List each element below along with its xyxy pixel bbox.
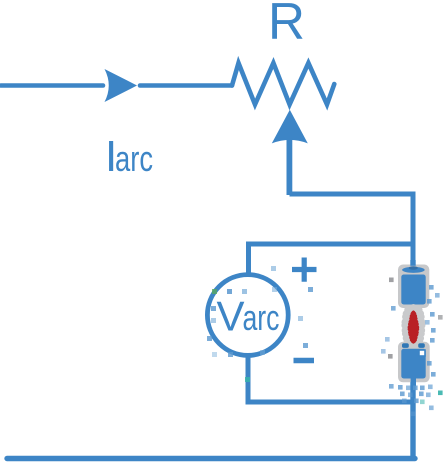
bottom electrode shell [398, 342, 430, 383]
arc-gap assembly [398, 260, 430, 386]
top electrode top face [402, 267, 425, 273]
svg-text:arc: arc [243, 297, 280, 338]
bottom electrode rim marks [402, 343, 409, 348]
red arc flame [408, 310, 420, 343]
wire: bottom bus to left edge [7, 456, 415, 461]
voltage source Varc circle [207, 275, 288, 356]
wire: feed continues to resistor [140, 83, 232, 88]
bottom electrode body [401, 349, 425, 379]
top electrode shell [398, 265, 429, 309]
wire: right vertical below electrodes [410, 380, 415, 459]
svg-text:arc: arc [115, 138, 153, 179]
bottom electrode highlight square [419, 350, 425, 356]
current direction arrowhead [105, 69, 138, 102]
spark spray dots around Varc circle [207, 266, 313, 382]
spark spray dots around electrodes [381, 278, 443, 417]
wire: elbow from wiper to right vertical [290, 194, 414, 267]
plus sign [292, 258, 317, 282]
wire into top electrode [410, 260, 415, 266]
wiper arrowhead pointing up at resistor [272, 110, 308, 144]
svg-text:R: R [268, 0, 305, 51]
top electrode body [401, 275, 425, 305]
wire: wiper shaft [286, 138, 292, 195]
wire: top horizontal feed from left edge [1, 83, 103, 88]
minus sign [294, 358, 315, 363]
wire stub below bottom electrode [411, 378, 416, 386]
wire: top of Varc to right vertical [249, 244, 414, 276]
resistor R [232, 63, 334, 105]
svg-text:V: V [217, 293, 245, 340]
wire: bottom of Varc to bottom bus [248, 353, 413, 402]
arc sheath (bumpy gray) [401, 304, 425, 346]
